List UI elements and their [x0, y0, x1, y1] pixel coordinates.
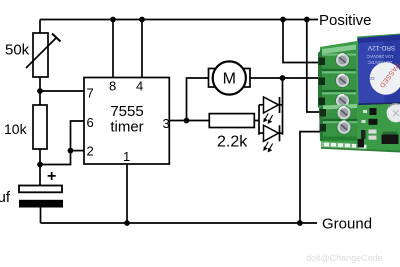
wire led left rail	[258, 105, 260, 135]
TB2 cell 2 rim	[323, 121, 357, 123]
terminal block TB1 body	[322, 49, 356, 105]
LED D2 triangle	[264, 125, 279, 141]
svg-text:M: M	[223, 71, 236, 88]
svg-text:2.2k: 2.2k	[217, 134, 248, 151]
potentiometer R1 wiper arrow	[26, 38, 57, 69]
wire 50k to node	[39, 77, 41, 105]
TB1 cell 2 rim	[322, 71, 356, 73]
svg-text:uf: uf	[0, 189, 11, 206]
svg-text:2: 2	[87, 144, 94, 159]
TB1 wire entry slots	[319, 58, 326, 66]
TB1 screw 2	[335, 73, 350, 88]
svg-text:+: +	[47, 168, 56, 185]
capacitor C1 top plate	[19, 186, 62, 193]
svg-text:7: 7	[87, 86, 94, 101]
resistor R2 10k body	[33, 105, 47, 149]
svg-text:8: 8	[109, 79, 116, 94]
LED D1 cathode bar	[279, 97, 281, 113]
solder pads bottom row	[324, 143, 366, 149]
terminal block TB2 top face	[323, 104, 357, 110]
svg-text:timer: timer	[110, 119, 143, 136]
wire led1 cathode stub	[280, 104, 283, 106]
resistor R3 2.2k body	[209, 114, 254, 128]
wire node B to pin2	[71, 150, 85, 152]
IC component	[382, 135, 399, 145]
svg-text:Positive: Positive	[319, 12, 372, 29]
smd resistor pair 2	[369, 136, 377, 140]
svg-text:1: 1	[123, 149, 130, 164]
svg-text:Ground: Ground	[322, 216, 372, 233]
svg-text:4: 4	[136, 79, 143, 94]
wire pin1 to ground	[126, 164, 128, 223]
svg-text:3: 3	[163, 116, 170, 131]
wire node A to capacitor	[39, 165, 41, 186]
node junction dot pin7	[37, 88, 43, 94]
svg-text:50k: 50k	[5, 42, 30, 59]
TB2 cell divider	[323, 119, 357, 121]
TB1 cell divider 1	[322, 69, 356, 71]
wire led2 anode stub	[259, 132, 264, 134]
svg-text:7555: 7555	[110, 103, 143, 120]
node junction dot relay terminal4 rail	[304, 17, 310, 23]
transistor bottom left	[358, 139, 365, 148]
node junction dot pin4 rail	[139, 17, 145, 23]
svg-text:co: co	[369, 75, 375, 81]
relay K1 lighter label zone	[358, 38, 385, 105]
smd dark component	[361, 130, 366, 139]
smd resistor pair 1	[369, 130, 377, 134]
TB1 cell 1 rim	[322, 54, 356, 56]
node junction dot pin1 ground	[124, 220, 130, 226]
potentiometer R1 50k body	[33, 33, 48, 77]
svg-text:10k: 10k	[4, 121, 28, 137]
TB2 screw 5	[337, 120, 352, 135]
relay K1 white sticker circle	[370, 62, 400, 95]
relay K1 top dark strip	[358, 35, 400, 44]
TB2 wire entry slots	[320, 109, 327, 117]
node junction dot motor right	[280, 75, 286, 81]
relay K1 bottom shadow line	[359, 103, 400, 104]
relay module PCB bottom edge strip	[321, 142, 367, 151]
wire led right rail	[282, 78, 284, 135]
ground rail wire	[41, 222, 318, 224]
diode component	[369, 119, 378, 125]
terminal block TB2 body	[323, 106, 357, 141]
TB1 cell 3 rim	[322, 92, 356, 94]
wire capacitor to ground rail	[40, 208, 42, 224]
TB1 cell divider 2	[322, 90, 356, 92]
wire positive top rail	[40, 19, 318, 21]
wire pin4 to rail	[141, 20, 143, 78]
wire node A to pins 2-6 branch	[40, 121, 84, 165]
relay module photo	[318, 34, 400, 153]
electrolytic capacitor on module	[387, 104, 400, 123]
TB1 screw 3	[335, 94, 350, 109]
node junction dot relay terminal5 ground	[297, 220, 303, 226]
wire relay terminal5 to ground	[300, 132, 321, 223]
TB2 bottom shadow	[323, 137, 357, 141]
wire motor node to relay terminal2	[283, 77, 324, 79]
node junction dot relay terminal1 rail	[280, 17, 286, 23]
relay module PCB board	[320, 34, 400, 153]
wire pin8 to rail	[112, 20, 114, 78]
terminal block TB1 top face	[322, 45, 356, 55]
wire branch up to motor	[187, 78, 209, 121]
svg-text:doit@ChangeCode: doit@ChangeCode	[306, 253, 383, 263]
motor M1 left brush	[209, 69, 217, 88]
node junction dot pin3 branch	[184, 118, 190, 124]
node junction dot B pin2	[68, 148, 74, 154]
TB2 screw 4	[337, 106, 352, 121]
node junction dot A	[37, 162, 43, 168]
terminal block TB1 left side profile	[318, 49, 322, 108]
potentiometer R1 wiper bar	[52, 34, 61, 42]
IC pins	[383, 132, 398, 135]
svg-text:6: 6	[87, 115, 94, 130]
small smd white dots	[363, 110, 367, 113]
LED D1 arrows	[264, 113, 273, 123]
wire 2.2k to led rail	[254, 120, 259, 122]
wire rail to relay terminal1	[283, 20, 323, 63]
relay module PCB bottom edge line	[321, 147, 400, 153]
TB1 screw 1	[335, 53, 350, 68]
LED D2 arrows	[264, 142, 273, 152]
LED D1 triangle	[264, 97, 279, 113]
motor M1 body	[213, 61, 246, 94]
LED D2 cathode bar	[279, 125, 281, 141]
svg-text:SRD-12V: SRD-12V	[367, 44, 395, 51]
wire pin3 output	[169, 120, 209, 122]
op-amp U1 7555 timer body	[84, 78, 169, 165]
transistor component	[370, 108, 377, 115]
svg-text:10A 250VAC: 10A 250VAC	[366, 53, 394, 59]
motor M1 right brush	[243, 69, 251, 88]
relay K1 blue relay body	[358, 35, 400, 106]
wire 10k to node A	[39, 149, 41, 165]
wire top rail to 50k	[39, 20, 41, 34]
capacitor C1 bottom plate	[19, 200, 63, 208]
terminal block TB2 left side profile	[319, 106, 323, 142]
wire rail to relay terminal4	[307, 20, 321, 113]
wire led2 cathode stub	[280, 132, 283, 134]
wire led1 anode stub	[259, 104, 264, 106]
wire node to pin7	[40, 90, 84, 92]
wire motor to right node	[250, 77, 283, 79]
node junction dot pin8 rail	[110, 17, 116, 23]
